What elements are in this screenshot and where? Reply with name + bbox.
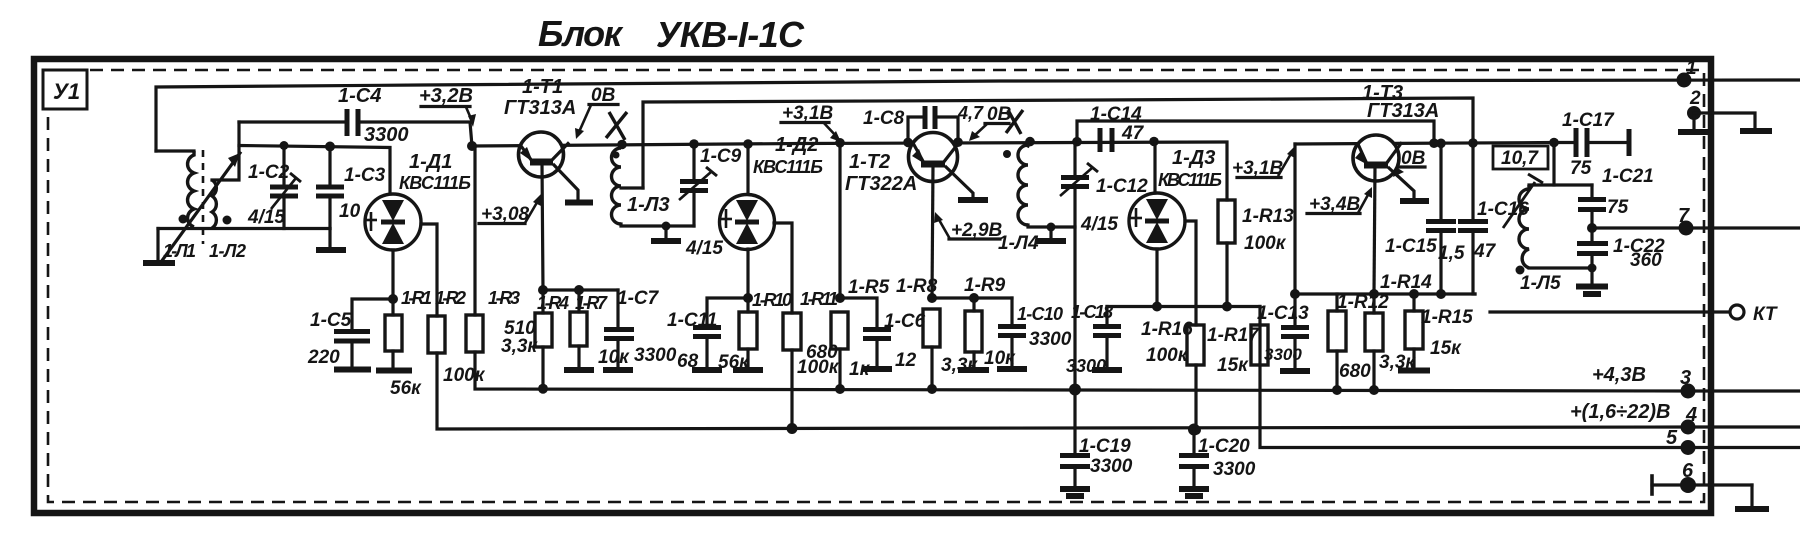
varicap D3 КВС111Б bbox=[1129, 137, 1222, 249]
svg-text:1-С13: 1-С13 bbox=[1257, 303, 1309, 324]
resistor R17 15к bbox=[1207, 325, 1268, 376]
svg-text:1-R2: 1-R2 bbox=[435, 288, 466, 308]
pin 6 wire and terminal bbox=[1652, 460, 1769, 509]
svg-text:4/15: 4/15 bbox=[685, 238, 723, 259]
inductor L3 bbox=[612, 140, 670, 224]
resistor R8 3,3к bbox=[896, 276, 978, 389]
wire coil bottoms bbox=[158, 227, 330, 230]
svg-text:1-С8: 1-С8 bbox=[863, 108, 905, 129]
resistor R5 1к bbox=[831, 277, 890, 389]
ground at L4 bbox=[1036, 223, 1066, 242]
svg-text:6: 6 bbox=[1682, 460, 1694, 482]
pin 1 terminal dot bbox=[1677, 73, 1692, 88]
resistor R7 10к bbox=[564, 285, 630, 370]
svg-text:3300: 3300 bbox=[1066, 356, 1106, 376]
capacitor C3 10 bbox=[316, 142, 386, 229]
pin 4 terminal dot bbox=[1681, 420, 1696, 435]
ground under C3 bbox=[316, 229, 346, 251]
svg-text:1-С14: 1-С14 bbox=[1090, 104, 1142, 125]
svg-text:КТ: КТ bbox=[1753, 304, 1778, 325]
svg-text:Блок: Блок bbox=[538, 13, 624, 54]
svg-text:1-Л3: 1-Л3 bbox=[627, 194, 670, 216]
svg-text:1-С20: 1-С20 bbox=[1198, 436, 1250, 457]
border frame outer solid bbox=[34, 59, 1711, 513]
capacitor C4 3300 series bbox=[239, 85, 472, 146]
wire: rail3 from C12 node over to T3 collector bbox=[1077, 121, 1434, 143]
resistor R5 riser bbox=[835, 138, 845, 298]
label 0В with arrow (T2) bbox=[969, 104, 1012, 141]
module label box У1 bbox=[43, 70, 87, 109]
svg-text:1-R16: 1-R16 bbox=[1141, 319, 1193, 340]
svg-text:4/15: 4/15 bbox=[247, 207, 285, 228]
capacitor C17 75 series bbox=[1562, 110, 1629, 179]
svg-text:УКВ-I-1С: УКВ-I-1С bbox=[656, 14, 805, 55]
capacitor C20 3300 bbox=[1179, 424, 1256, 497]
junction dot C4/T1 base node bbox=[467, 141, 477, 151]
resistor R10 56к bbox=[718, 290, 792, 373]
svg-text:7: 7 bbox=[1678, 205, 1690, 227]
varicap D1 КВС111Б bbox=[365, 151, 471, 250]
node wire y146 (C2 C3 D1 T1 base) bbox=[239, 146, 390, 195]
svg-text:1-Т2: 1-Т2 bbox=[849, 151, 890, 173]
resistor R15 15к bbox=[1398, 289, 1473, 371]
resistor R13 100к bbox=[1218, 200, 1294, 307]
label 0В with arrow (T1) bbox=[575, 85, 618, 139]
svg-text:1-С21: 1-С21 bbox=[1602, 166, 1654, 187]
T1 collector node wire R4 R7 C7 bbox=[543, 288, 618, 291]
label +3,4В with arrow bbox=[1307, 187, 1372, 215]
svg-text:1-С17: 1-С17 bbox=[1562, 110, 1615, 131]
svg-text:68: 68 bbox=[677, 351, 699, 372]
svg-text:1-С3: 1-С3 bbox=[344, 165, 386, 186]
border frame inner dashed bbox=[48, 70, 1704, 502]
pin 7 output line bbox=[1592, 226, 1800, 229]
svg-text:1-R10: 1-R10 bbox=[752, 290, 792, 310]
svg-text:3,3к: 3,3к bbox=[501, 336, 538, 357]
svg-text:ГТ313А: ГТ313А bbox=[1367, 100, 1439, 122]
phase dot L2 bbox=[223, 216, 232, 225]
capacitor C6 12 bbox=[840, 298, 926, 371]
svg-text:100к: 100к bbox=[797, 357, 840, 378]
svg-text:1-R9: 1-R9 bbox=[964, 275, 1006, 296]
svg-text:3300: 3300 bbox=[1090, 456, 1133, 477]
box 10,7 bbox=[1493, 146, 1548, 169]
svg-text:1-R13: 1-R13 bbox=[1242, 206, 1294, 227]
capacitor C10 3300 bbox=[997, 298, 1072, 369]
pin 3 terminal dot bbox=[1681, 384, 1696, 399]
capacitor C22 360 bbox=[1576, 228, 1665, 294]
svg-text:1-С5: 1-С5 bbox=[310, 310, 352, 331]
resistor R9 10к bbox=[958, 275, 1016, 370]
svg-text:1-Л1: 1-Л1 bbox=[163, 241, 196, 261]
svg-text:1-С12: 1-С12 bbox=[1096, 176, 1148, 197]
capacitor C21 75 bbox=[1578, 166, 1654, 228]
junction dots bus A bbox=[538, 384, 937, 394]
svg-text:У1: У1 bbox=[53, 79, 80, 104]
tank top wire bbox=[1529, 183, 1592, 186]
svg-text:1-R5: 1-R5 bbox=[848, 277, 890, 298]
label +3,08 with arrow bbox=[479, 194, 541, 225]
wire: pin1 antenna rail along top bbox=[156, 80, 1800, 151]
resistor R16 100к bbox=[1141, 319, 1204, 435]
transistor T1 ГТ313А bbox=[504, 76, 593, 290]
wire D3 bottom to tuning bus bbox=[1155, 249, 1158, 307]
svg-text:1-R4: 1-R4 bbox=[537, 293, 569, 313]
svg-text:3300: 3300 bbox=[364, 124, 409, 146]
capacitor C19 3300 bbox=[1060, 384, 1133, 497]
svg-text:1-Т1: 1-Т1 bbox=[522, 76, 563, 98]
phase dot L1 bbox=[179, 215, 188, 224]
svg-text:+3,1В: +3,1В bbox=[1232, 158, 1284, 179]
svg-text:3300: 3300 bbox=[634, 345, 677, 366]
node wire R8 R9 C10 bbox=[932, 296, 1012, 299]
svg-text:100к: 100к bbox=[443, 365, 486, 386]
svg-text:1-R17: 1-R17 bbox=[1207, 325, 1260, 346]
tuning bus y306 bbox=[1107, 305, 1260, 308]
svg-text:1-С19: 1-С19 bbox=[1079, 436, 1131, 457]
svg-text:1-С10: 1-С10 bbox=[1017, 304, 1063, 324]
capacitor C5 220 bbox=[307, 299, 393, 370]
capacitor C12 variable 4/15 bbox=[1060, 137, 1148, 235]
svg-text:15к: 15к bbox=[1430, 338, 1462, 359]
varicap D2 КВС111Б bbox=[720, 134, 824, 250]
svg-text:100к: 100к bbox=[1146, 345, 1189, 366]
svg-text:1-R7: 1-R7 bbox=[575, 293, 608, 313]
resistor R3 510 bbox=[466, 146, 538, 357]
svg-text:1-R14: 1-R14 bbox=[1380, 272, 1432, 293]
wire D1 bottom to R1 node bbox=[391, 250, 394, 299]
svg-text:КВС111Б: КВС111Б bbox=[753, 157, 823, 177]
svg-text:4/15: 4/15 bbox=[1080, 214, 1118, 235]
transistor T2 ГТ322А bbox=[845, 133, 988, 299]
svg-text:680: 680 bbox=[1339, 361, 1371, 382]
svg-text:1-Д3: 1-Д3 bbox=[1172, 147, 1215, 169]
capacitor C16 47 bbox=[1458, 138, 1529, 294]
svg-text:10,7: 10,7 bbox=[1501, 148, 1539, 169]
capacitor C11 68 bbox=[667, 298, 748, 372]
wire: bus C AGC line y447 bbox=[1260, 307, 1800, 448]
inductor L5 bbox=[1516, 185, 1561, 294]
capacitor C14 47 series bbox=[1090, 104, 1145, 152]
svg-text:1-Л4: 1-Л4 bbox=[998, 233, 1039, 254]
svg-text:ГТ322А: ГТ322А bbox=[845, 173, 917, 195]
svg-text:1-R3: 1-R3 bbox=[488, 288, 520, 308]
svg-text:1-R11: 1-R11 bbox=[800, 289, 838, 309]
svg-text:4: 4 bbox=[1685, 404, 1697, 426]
capacitor C2 variable 4/15 bbox=[247, 141, 301, 229]
svg-text:+3,2В: +3,2В bbox=[419, 85, 473, 107]
transformer L1 L2 input bbox=[143, 122, 330, 263]
svg-text:1-R15: 1-R15 bbox=[1421, 307, 1473, 328]
ground at L1 bbox=[156, 229, 159, 262]
svg-text:1-Л2: 1-Л2 bbox=[209, 241, 246, 261]
svg-text:1-Л5: 1-Л5 bbox=[1520, 273, 1561, 294]
svg-text:56к: 56к bbox=[718, 352, 750, 373]
resistor R11 100к bbox=[783, 289, 840, 429]
resistor R14 3,3к bbox=[1365, 272, 1432, 395]
tank bottom wire bbox=[1529, 266, 1592, 269]
svg-text:1-Д2: 1-Д2 bbox=[775, 134, 818, 156]
capacitor C15 1,5 bbox=[1385, 139, 1465, 300]
resistor R12 680 bbox=[1328, 292, 1389, 395]
label +3,1В with arrow (T2 base) bbox=[781, 103, 841, 142]
trimmer X mark at L4 bbox=[1006, 110, 1023, 134]
svg-text:360: 360 bbox=[1630, 250, 1662, 271]
wire D2 right lead to R11 bbox=[774, 223, 792, 313]
svg-text:ГТ313А: ГТ313А bbox=[504, 97, 576, 119]
node wire y294 R12 R14 R15 C15 C16 bbox=[1295, 292, 1475, 295]
title Блок УКВ-I-1С bbox=[538, 13, 805, 55]
svg-text:КВС111Б: КВС111Б bbox=[1158, 170, 1222, 190]
svg-text:2: 2 bbox=[1689, 88, 1701, 109]
capacitor C13 3300 bbox=[1257, 289, 1310, 371]
svg-text:75: 75 bbox=[1607, 197, 1629, 218]
wire: main horizontal signal wire left part bbox=[472, 142, 1227, 200]
svg-text:1-С6: 1-С6 bbox=[884, 311, 926, 332]
svg-text:1-R8: 1-R8 bbox=[896, 276, 938, 297]
wire: rail2 from L3 tap to output section bbox=[643, 98, 1473, 188]
svg-text:10: 10 bbox=[339, 201, 361, 222]
svg-text:+3,1В: +3,1В bbox=[782, 103, 834, 124]
wire L3 bottom to C9 bottom bbox=[621, 224, 694, 226]
capacitor C7 3300 bbox=[603, 288, 677, 370]
inductor L4 bbox=[998, 137, 1039, 254]
svg-text:1-С15: 1-С15 bbox=[1385, 236, 1437, 257]
svg-text:0В: 0В bbox=[987, 104, 1012, 125]
svg-text:3300: 3300 bbox=[1029, 329, 1072, 350]
wire L2 top to C4 node bbox=[212, 122, 239, 180]
svg-text:220: 220 bbox=[307, 347, 340, 368]
transistor T3 ГТ313А bbox=[1353, 82, 1439, 294]
svg-text:100к: 100к bbox=[1244, 233, 1287, 254]
svg-text:КВС111Б: КВС111Б bbox=[399, 173, 471, 193]
svg-text:1-С11: 1-С11 bbox=[667, 310, 717, 331]
svg-text:3: 3 bbox=[1680, 367, 1691, 389]
junction dot bus B R11 bbox=[787, 423, 798, 434]
svg-text:1: 1 bbox=[1686, 58, 1697, 79]
inductor L2 bbox=[212, 180, 216, 228]
test point KT bbox=[1490, 304, 1778, 325]
svg-text:+4,3В: +4,3В bbox=[1592, 364, 1646, 386]
svg-text:10к: 10к bbox=[598, 347, 630, 368]
svg-text:+3,4В: +3,4В bbox=[1309, 194, 1361, 215]
svg-text:1-Д1: 1-Д1 bbox=[409, 151, 452, 173]
pin 5 terminal dot bbox=[1681, 440, 1696, 455]
wire D1 right lead to R2 bbox=[421, 224, 437, 316]
junction dots main wire bbox=[1429, 138, 1439, 148]
wire C12 down to bus A bbox=[1073, 227, 1076, 390]
svg-text:1-С9: 1-С9 bbox=[700, 146, 742, 167]
label +3,1В with arrow (T3 base) bbox=[1232, 146, 1295, 179]
svg-text:+3,08: +3,08 bbox=[481, 204, 530, 225]
wire D2 bottom to R10 node bbox=[746, 249, 749, 298]
capacitor C9 variable 4/15 bbox=[679, 139, 742, 259]
svg-text:1-С7: 1-С7 bbox=[617, 288, 660, 309]
resistor R1 56к bbox=[376, 288, 432, 399]
wire L4 bottom to C12 bbox=[1028, 225, 1074, 227]
capacitor C8 4,7 feedback bbox=[863, 103, 984, 147]
svg-text:3300: 3300 bbox=[1264, 345, 1302, 364]
inductor L1 bbox=[188, 151, 194, 227]
svg-text:3300: 3300 bbox=[1213, 459, 1256, 480]
svg-text:47: 47 bbox=[1473, 241, 1497, 262]
trimmer X mark at L3 bbox=[606, 112, 627, 140]
T3 base riser to C13/R12 node bbox=[1293, 144, 1296, 294]
core dashed line bbox=[202, 150, 205, 244]
svg-text:1-R12: 1-R12 bbox=[1337, 292, 1389, 313]
wire: main horizontal signal wire right part (T3 base to output) bbox=[1295, 143, 1576, 145]
svg-text:+(1,6÷22)В: +(1,6÷22)В bbox=[1570, 401, 1670, 423]
svg-text:15к: 15к bbox=[1217, 355, 1249, 376]
svg-text:12: 12 bbox=[895, 350, 917, 371]
svg-text:1-R1: 1-R1 bbox=[401, 288, 432, 308]
label +3,2В with arrow bbox=[419, 85, 476, 127]
label 0В (T3) bbox=[1393, 148, 1426, 177]
output tank riser bbox=[1549, 138, 1559, 185]
svg-text:75: 75 bbox=[1570, 158, 1592, 179]
tuning arrow through transformer bbox=[161, 153, 240, 262]
svg-text:5: 5 bbox=[1666, 427, 1678, 449]
resistor R2 100к bbox=[428, 288, 486, 386]
wire: L3 tap stub bbox=[621, 186, 643, 189]
ground at L3/C9 bbox=[651, 222, 681, 242]
svg-text:1,5: 1,5 bbox=[1438, 243, 1465, 264]
svg-text:1-С2: 1-С2 bbox=[248, 162, 290, 183]
wire: bus A bias line y389 bbox=[475, 352, 1800, 391]
junction pin7 tap bbox=[1587, 223, 1597, 233]
label +2,9В with arrow bbox=[934, 212, 1003, 241]
svg-text:1-С4: 1-С4 bbox=[338, 85, 381, 107]
svg-text:47: 47 bbox=[1121, 123, 1145, 144]
wire antenna to L1 top bbox=[156, 149, 194, 152]
pin 2 with grounds bbox=[1678, 88, 1772, 132]
capacitor C18 3300 bbox=[1066, 302, 1122, 376]
svg-text:0В: 0В bbox=[591, 85, 616, 106]
wire: bus B tuning voltage line y429 bbox=[437, 353, 1800, 429]
svg-text:4,7: 4,7 bbox=[957, 103, 984, 123]
resistor R4 bbox=[535, 285, 569, 389]
wire D3 right lead down to R16 bbox=[1185, 221, 1196, 325]
svg-text:56к: 56к bbox=[390, 378, 422, 399]
svg-text:1-С18: 1-С18 bbox=[1071, 302, 1113, 322]
L5 core trimmer arrow bbox=[1503, 174, 1543, 228]
